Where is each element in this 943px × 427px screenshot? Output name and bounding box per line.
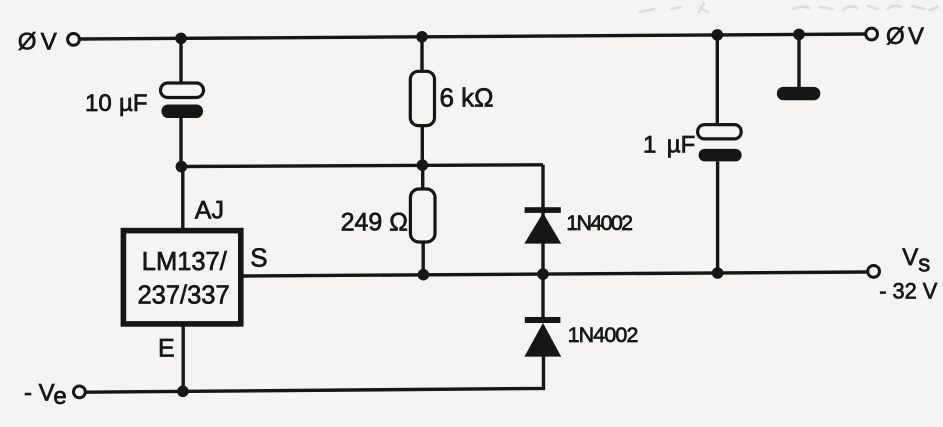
svg-text:V: V xyxy=(41,28,57,55)
svg-text:AJ: AJ xyxy=(195,196,224,224)
svg-text:E: E xyxy=(158,335,175,363)
svg-text:S: S xyxy=(250,243,267,273)
svg-text:1N4002: 1N4002 xyxy=(566,211,632,235)
svg-text:237/337: 237/337 xyxy=(138,282,230,310)
svg-text:Ø: Ø xyxy=(886,23,905,50)
svg-text:- Ve: - Ve xyxy=(24,379,67,409)
svg-text:Ø: Ø xyxy=(18,28,37,55)
svg-text:V: V xyxy=(908,23,924,50)
svg-text:1N4002: 1N4002 xyxy=(568,323,638,347)
svg-text:- 32 V: - 32 V xyxy=(879,279,938,304)
svg-text:6 kΩ: 6 kΩ xyxy=(440,83,494,113)
svg-text:1: 1 xyxy=(643,131,656,158)
svg-text:µF: µF xyxy=(119,90,148,117)
svg-text:249 Ω: 249 Ω xyxy=(341,208,408,236)
svg-text:µF: µF xyxy=(667,131,696,158)
svg-text:LM137/: LM137/ xyxy=(142,248,228,276)
svg-text:10: 10 xyxy=(85,90,112,117)
